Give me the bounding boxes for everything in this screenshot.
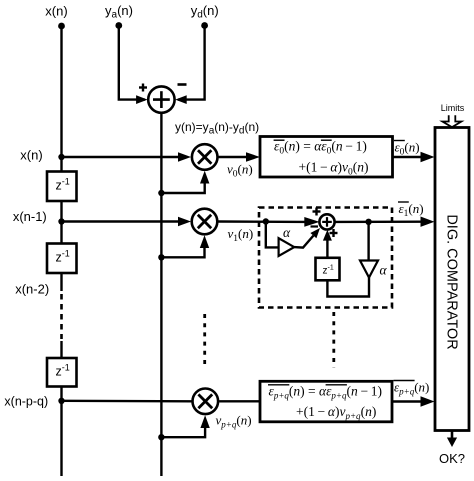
svg-text:α: α [380,263,388,278]
junction x(n-1) row2 [58,218,64,224]
wire M1 into dashed block to summer S1 [218,217,320,227]
wire ya(n) to summer [119,26,148,104]
svg-text:x(n): x(n) [20,148,42,163]
node x(n) input terminal [45,4,67,30]
dashed averager block boundary [259,208,392,308]
junction v1 feed on y bus [158,254,164,260]
plus sign at summer ya input [139,84,147,92]
wire y(n) vertical bus [160,113,162,476]
junction v0 feed on y bus [158,190,164,196]
wire dashed continuation of x bus [60,294,63,339]
averager box B0 [260,137,393,178]
svg-text:Limits: Limits [441,103,465,113]
multiplier M1 [192,209,218,235]
wire M3 to averager box B3 [219,400,260,402]
wire v0 feed to M0 [161,171,209,193]
delay z^-1 block Z2 [47,244,77,274]
comparator U2 DIG. COMPARATOR [435,128,469,431]
wire M0 to averager box B0 [218,152,260,162]
svg-text:x(n): x(n) [45,4,67,19]
averager box B3 [260,381,392,422]
node ya(n) input terminal [105,3,133,29]
wire x bus bottom segment [60,386,62,476]
node yd(n) input terminal [191,3,219,29]
wire A2 feedback to Z4 [327,278,369,297]
junction vpq feed on y bus [158,434,164,440]
delay z^-1 block Z1 [47,172,77,202]
wire A1 to summer S1 (minus input) [294,228,320,248]
wire Z4 up to S1 [323,230,332,258]
wire S1 output to comparator [335,217,435,227]
minus sign S1 diagonal input [311,225,319,227]
wire row4 x(n-p-q) to multiplier M3 [62,400,192,403]
delay z^-1 block Z4 [316,258,340,281]
svg-text:x(n-p-q): x(n-p-q) [4,395,48,409]
wire x(n) bus segment top [60,26,62,172]
svg-text:ya(n): ya(n) [105,3,133,21]
minus sign at summer yd input [178,83,187,86]
wire yd(n) to summer [175,26,204,104]
net label eps1(n) [398,201,424,219]
wire row1 x(n) to multiplier M0 [62,152,192,161]
plus sign S1 bottom input [330,229,338,237]
wire below Z2 [60,273,62,291]
svg-text:x(n-2): x(n-2) [15,282,49,297]
dotted continuation line mid-right [332,312,335,368]
wire above Z3 [60,341,62,359]
junction x(n) row1 [58,154,64,160]
wire S1 node down to amp A2 [367,222,369,261]
summer U1 (ya - yd) [148,86,174,112]
summer S1 [319,214,334,229]
svg-text:yd(n): yd(n) [191,3,219,21]
plus sign S1 top input [313,208,321,216]
wire vpq feed to M3 [161,415,209,437]
amplifier A2 alpha (down) [360,261,388,278]
wire row2 x(n-1) to multiplier M1 [62,217,192,226]
junction v1 node in dashed block [263,218,269,224]
wire v1 feed to M1 [161,235,209,257]
svg-text:OK?: OK? [439,451,465,466]
limits hollow arrow into comparator [442,115,461,127]
svg-text:α: α [283,225,291,240]
svg-text:x(n-1): x(n-1) [13,209,47,224]
wire between Z1 and Z2 [60,201,62,244]
wire B0 to comparator [393,152,435,162]
dotted continuation line mid-left [203,314,206,369]
amplifier A1 alpha [279,225,295,256]
multiplier M3 [193,389,219,415]
net label eps0(n) [394,140,420,158]
multiplier M0 [192,144,218,170]
wire B3 to comparator [392,396,435,406]
junction x(n-p-q) row4 [58,398,64,404]
net label epspq(n) [394,380,430,397]
svg-text:+(1 − α)vp+q(n): +(1 − α)vp+q(n) [296,404,376,421]
wire v1 node down to amp A1 [266,222,279,248]
delay z^-1 block Z3 [47,358,77,387]
svg-text:DIG. COMPARATOR: DIG. COMPARATOR [444,214,460,349]
junction S1 output node [365,219,371,225]
comparator output arrow [447,431,457,448]
label y(n)=ya(n)-yd(n) [175,120,259,137]
